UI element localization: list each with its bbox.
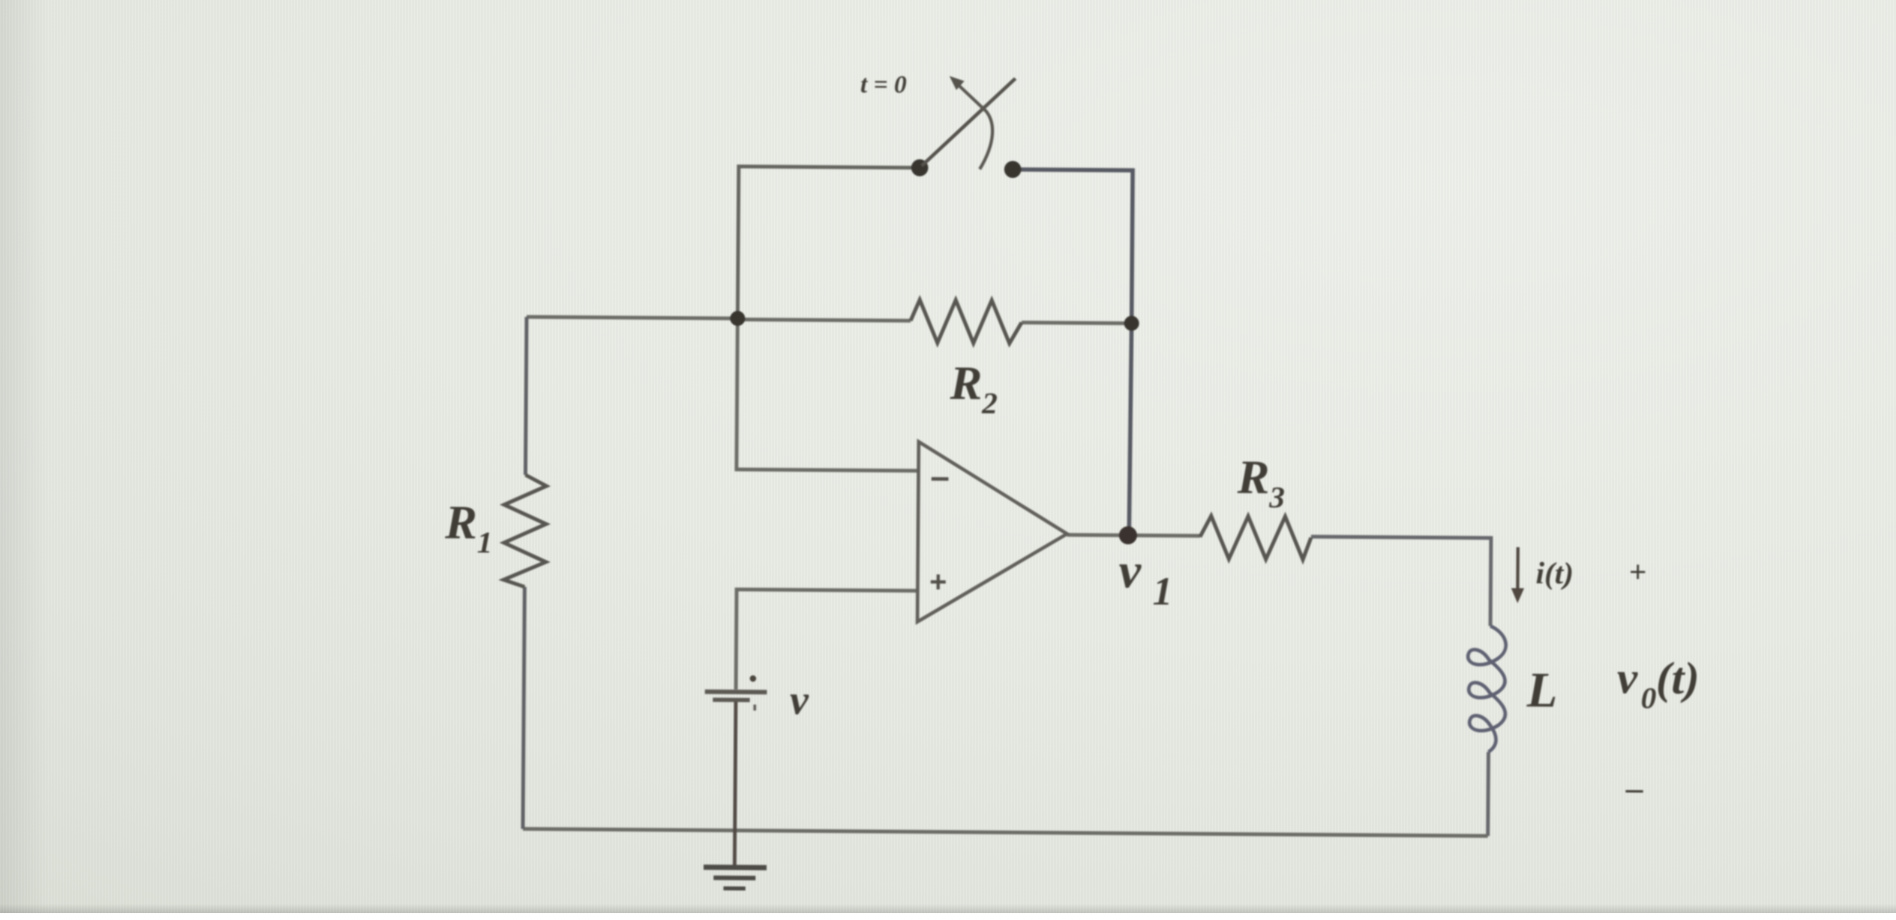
resistor R3 xyxy=(1200,516,1311,560)
wire switch branch left: node A up and right to switch left terminal xyxy=(738,166,920,321)
wire non-inverting input: battery top up then right to op-amp plus input xyxy=(736,589,918,690)
wire R3 right lead to top-right corner down to inductor top xyxy=(1310,537,1491,626)
wire battery bottom plate down to ground xyxy=(735,700,736,866)
svg-text:–: – xyxy=(1625,770,1643,807)
svg-text:v: v xyxy=(1617,652,1638,703)
resistor R2 xyxy=(910,300,1021,344)
switch S (t=0): arrowhead xyxy=(949,76,964,90)
current arrow i(t) xyxy=(1516,547,1520,591)
switch S (t=0): right terminal dot xyxy=(1004,161,1021,178)
wire top-left horizontal from left rail to node A xyxy=(527,317,738,319)
wire node B down to output node v1 xyxy=(1129,323,1132,535)
wire inverting input: node A down then right to op-amp minus input xyxy=(737,318,920,470)
svg-text:1: 1 xyxy=(1152,568,1172,613)
op-amp U1 minus input sign xyxy=(931,477,948,481)
svg-text:t = 0: t = 0 xyxy=(860,71,907,98)
switch S (t=0): left terminal dot xyxy=(911,159,928,176)
switch S (t=0): blade xyxy=(922,78,1016,167)
svg-text:v: v xyxy=(790,678,810,724)
wire inductor bottom down to bottom-right corner xyxy=(1486,752,1490,836)
inductor L coil xyxy=(1467,626,1506,752)
svg-text:R1: R1 xyxy=(444,496,493,559)
svg-text:0: 0 xyxy=(1641,680,1657,715)
svg-text:(t): (t) xyxy=(1656,652,1700,703)
svg-text:+: + xyxy=(1629,554,1647,589)
wire node A to R2 left lead xyxy=(738,319,911,320)
wire left rail above R1 xyxy=(525,317,526,475)
node B junction dot xyxy=(1124,316,1139,331)
resistor R1 xyxy=(504,475,547,587)
voltage source V battery: plus dot xyxy=(750,675,756,681)
wire bottom rail from right corner to left corner xyxy=(523,829,1488,836)
voltage source V battery: minus tick xyxy=(753,705,756,711)
node A junction dot xyxy=(730,311,745,326)
svg-text:v: v xyxy=(1119,542,1142,598)
svg-text:i(t): i(t) xyxy=(1536,555,1574,590)
svg-text:R2: R2 xyxy=(949,357,998,420)
switch S (t=0): motion arrow with arc xyxy=(957,84,993,169)
voltage source V battery: short bottom plate xyxy=(713,698,750,702)
svg-text:R3: R3 xyxy=(1236,451,1285,514)
node v1 junction dot xyxy=(1119,526,1137,544)
ground symbol xyxy=(703,867,766,888)
voltage source V battery: long top plate xyxy=(705,689,767,694)
wire op-amp output to node v1 xyxy=(1067,533,1129,537)
svg-text:L: L xyxy=(1526,661,1558,717)
op-amp U1 plus input sign xyxy=(931,574,946,589)
wire R2 right lead to node B xyxy=(1022,321,1132,326)
wire node v1 to R3 left lead xyxy=(1129,533,1200,537)
op-amp U1 triangle xyxy=(917,442,1067,623)
wire switch branch right: switch right terminal to corner down to node B xyxy=(1012,169,1133,323)
wire left rail below R1 xyxy=(523,587,525,829)
